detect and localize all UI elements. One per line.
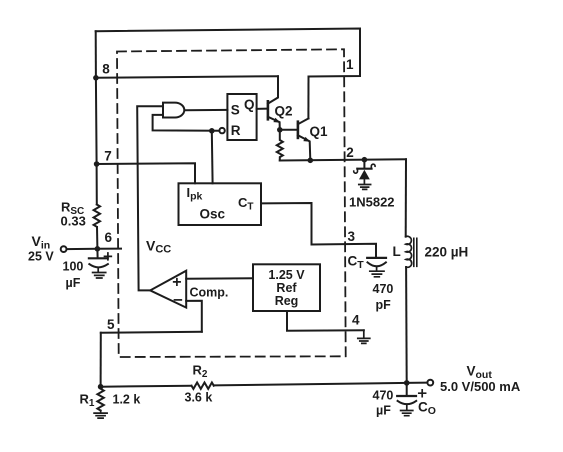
- pin 5 wire from inverting input: [101, 332, 202, 333]
- wire outer top loop from pin 8 rail to pin 1: [96, 29, 360, 77]
- wire inductor to output node: [405, 267, 408, 383]
- ground below diode: [359, 179, 371, 189]
- ground below 100uF: [93, 268, 106, 278]
- resistor R2 3.6k: [192, 383, 214, 389]
- svg-text:Q: Q: [244, 97, 255, 112]
- wire pin2 rail down to inductor: [405, 159, 407, 236]
- svg-text:1: 1: [346, 57, 354, 72]
- node R1 R2 feedback junction: [98, 384, 104, 390]
- node Q2 emitter Q1 base junction: [277, 127, 283, 133]
- capacitor CO stem: [406, 383, 408, 396]
- wire oscillator to AND gate bottom input: [153, 115, 220, 131]
- wire Vin rail pin8 to pin7: [95, 78, 98, 164]
- transistor Q1 base bar: [297, 122, 300, 138]
- svg-text:8: 8: [102, 62, 110, 77]
- wire pin 7 to Ipk input: [97, 163, 195, 183]
- svg-text:1.25 V: 1.25 V: [268, 268, 305, 282]
- oscillator box: [179, 183, 262, 225]
- svg-text:470: 470: [373, 282, 394, 296]
- resistor Q2 emitter to pin2 rail: [277, 130, 283, 161]
- wire Vin rail upper (top corner to pin 8): [95, 31, 97, 78]
- wire R2 to output node: [214, 383, 407, 386]
- svg-text:100: 100: [63, 259, 84, 273]
- ground below CT capacitor: [370, 267, 384, 277]
- wire Vin terminal to pin 6: [67, 248, 122, 251]
- wire pin 8 to Q2 collector: [96, 76, 278, 78]
- svg-text:Q2: Q2: [275, 104, 293, 119]
- transistor Q1 emitter: [298, 135, 310, 160]
- svg-text:5: 5: [107, 317, 115, 332]
- wire comparator noninverting input to reference: [186, 277, 253, 280]
- wire oscillator CT output to pin 3: [261, 203, 376, 257]
- diode 1N5822 anode triangle: [359, 170, 370, 180]
- resistor RSC 0.33: [94, 205, 100, 227]
- terminal Vin open circle: [61, 246, 67, 252]
- svg-text:VCC: VCC: [146, 238, 171, 256]
- svg-text:3.6 k: 3.6 k: [185, 391, 213, 405]
- svg-text:1N5822: 1N5822: [349, 195, 395, 210]
- svg-text:2: 2: [346, 145, 354, 160]
- svg-text:0.33: 0.33: [61, 214, 86, 229]
- transistor Q2 emitter: [268, 117, 280, 130]
- wire feedback node to R2: [101, 386, 192, 387]
- svg-text:6: 6: [104, 230, 112, 245]
- svg-text:7: 7: [104, 149, 112, 164]
- inverter bubble on R input: [219, 128, 224, 133]
- wire Rsc to pin 6 node: [96, 227, 98, 249]
- comparator triangle: [150, 271, 186, 308]
- node output junction: [404, 380, 410, 386]
- transistor Q2 collector: [268, 76, 278, 103]
- inductor core lines: [414, 238, 417, 266]
- capacitor CO 470uF top plate: [397, 395, 416, 397]
- wire Q1 collector feed from pin 1: [307, 77, 309, 119]
- wire pin5 down to R1 node: [100, 333, 102, 387]
- svg-text:R: R: [231, 123, 241, 138]
- svg-text:µF: µF: [66, 276, 81, 290]
- svg-text:CT: CT: [348, 254, 365, 272]
- svg-text:CT: CT: [238, 195, 254, 213]
- svg-text:1.2 k: 1.2 k: [113, 393, 141, 407]
- plus sign comparator input: [174, 279, 180, 285]
- wire comparator inverting input to pin 5: [186, 301, 202, 332]
- svg-text:pF: pF: [376, 298, 392, 312]
- IC boundary dashed box: [117, 49, 346, 357]
- wire reset node down to oscillator: [211, 131, 214, 184]
- wire pin 2 rail: [280, 159, 406, 160]
- terminal Vout open circle: [427, 380, 433, 386]
- AND gate U1: [163, 103, 184, 118]
- svg-text:220 µH: 220 µH: [425, 244, 469, 259]
- reference regulator box: [253, 264, 320, 311]
- resistor R1 1.2k: [97, 389, 103, 411]
- svg-text:Comp.: Comp.: [190, 285, 229, 299]
- node pin 7 junction: [94, 161, 100, 167]
- ground below CO: [401, 405, 413, 416]
- svg-text:µF: µF: [376, 404, 391, 418]
- node pin 6 junction: [95, 246, 101, 252]
- ground below R1: [94, 411, 107, 419]
- wire reference to pin 4 ground: [287, 311, 364, 331]
- svg-text:Ref: Ref: [276, 281, 297, 295]
- node catch diode junction: [362, 157, 368, 163]
- svg-text:S: S: [231, 103, 240, 118]
- transistor Q2 base bar: [267, 101, 270, 119]
- minus sign comparator input: [175, 299, 182, 301]
- svg-text:Reg: Reg: [275, 294, 299, 308]
- inductor L coil: [406, 236, 412, 267]
- svg-text:5.0 V/500 mA: 5.0 V/500 mA: [440, 379, 521, 394]
- arrow Q1 emitter: [303, 137, 310, 142]
- wire Q2 emitter node to Q1 base: [280, 129, 298, 131]
- node pin 8 junction: [93, 75, 99, 81]
- capacitor CO curved bottom plate: [398, 401, 417, 404]
- node oscillator reset junction: [209, 128, 215, 134]
- svg-text:Osc: Osc: [200, 207, 226, 222]
- svg-text:R2: R2: [193, 363, 208, 381]
- svg-text:25 V: 25 V: [28, 250, 54, 264]
- capacitor CT 470pF top plate: [367, 257, 386, 259]
- svg-text:3: 3: [348, 229, 356, 244]
- wire comparator output to AND gate top input: [137, 106, 163, 290]
- diode 1N5822 schottky cathode bar: [357, 168, 371, 170]
- capacitor CT 470pF curved bottom plate: [368, 262, 386, 266]
- wire Vin rail pin7 to Rsc: [96, 164, 98, 205]
- svg-text:L: L: [393, 244, 401, 259]
- wire AND output to S input: [185, 109, 227, 111]
- svg-text:CO: CO: [418, 400, 436, 418]
- svg-text:Ipk: Ipk: [187, 185, 203, 203]
- svg-text:470: 470: [373, 389, 394, 403]
- wire output node to Vout terminal: [407, 382, 428, 384]
- diode 1N5822 cathode hooks: [354, 164, 375, 173]
- svg-text:R1: R1: [80, 392, 95, 410]
- transistor Q1 collector: [298, 119, 309, 125]
- diode 1N5822 stem: [363, 160, 365, 168]
- capacitor C 100uF curved bottom plate: [89, 264, 108, 267]
- svg-text:Q1: Q1: [310, 124, 329, 139]
- arrow Q2 emitter: [273, 118, 280, 123]
- latch box S R Q: [227, 94, 256, 140]
- svg-text:4: 4: [352, 313, 360, 328]
- plus sign 100uF polarity: [105, 253, 112, 260]
- capacitor C 100uF stem: [96, 249, 98, 258]
- ground at pin 4: [358, 330, 370, 343]
- node Q1 emitter rail junction: [308, 158, 314, 164]
- capacitor C 100uF top plate: [89, 257, 108, 259]
- wire Q output to Q2 base: [257, 108, 267, 110]
- plus sign CO polarity: [419, 390, 426, 397]
